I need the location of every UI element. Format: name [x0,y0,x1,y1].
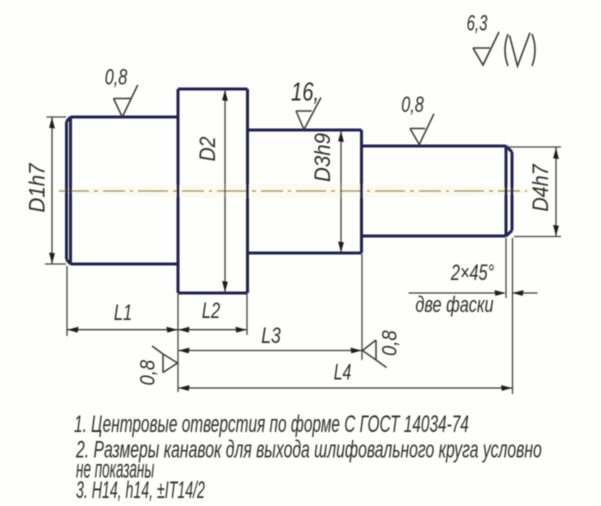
shaft section 3 outline [248,130,362,253]
svg-text:L1: L1 [114,301,132,326]
svg-text:1. Центровые отверстия по форм: 1. Центровые отверстия по форме С ГОСТ 1… [74,412,469,438]
svg-text:D1h7: D1h7 [25,162,50,212]
svg-text:2×45°: 2×45° [450,261,494,286]
dimension line L4 [178,387,513,389]
svg-text:0,8: 0,8 [105,65,128,90]
svg-text:D4h7: D4h7 [529,163,553,212]
svg-text:0,8: 0,8 [378,330,401,356]
svg-text:две фаски: две фаски [415,293,493,318]
chamfer dimension 2x45 [409,292,538,294]
svg-text:0,8: 0,8 [401,93,424,118]
svg-text:L2: L2 [202,299,221,324]
dimension line L3 [178,350,362,352]
svg-text:D2: D2 [196,136,220,161]
rotated roughness 0,8 at groove right (points left) [363,340,387,368]
svg-text:L3: L3 [261,324,281,348]
svg-text:D3h9: D3h9 [310,133,335,182]
svg-text:6,3: 6,3 [467,11,488,36]
roughness symbol 0,8 over section 1 [114,85,138,117]
svg-text:0,8: 0,8 [136,360,159,386]
shaft section 2 outline [178,89,248,293]
shaft section 4 outline with right chamfer [362,146,513,236]
svg-text:3. Н14, h14, ±IT14/2: 3. Н14, h14, ±IT14/2 [76,477,205,504]
dimension D2 line [224,90,226,293]
dimension line L1 L2 [67,329,247,331]
shaft section 1 outline [67,117,179,264]
roughness symbol 0,8 over section 4 [410,114,434,145]
dimension D1h7 line [51,117,53,264]
general roughness 6,3 symbol top right [473,32,535,66]
rotated roughness 0,8 at groove left (points right) [152,346,178,373]
paper tint [60,184,540,198]
roughness symbol 1,6 over section 3 [296,98,321,130]
svg-text:L4: L4 [334,361,352,385]
svg-text:16,: 16, [291,77,319,106]
dimension D4h7 line [555,148,557,237]
dimension D3h9 line [340,131,342,253]
thin extension lines [45,117,561,394]
centerline axis [59,190,527,192]
